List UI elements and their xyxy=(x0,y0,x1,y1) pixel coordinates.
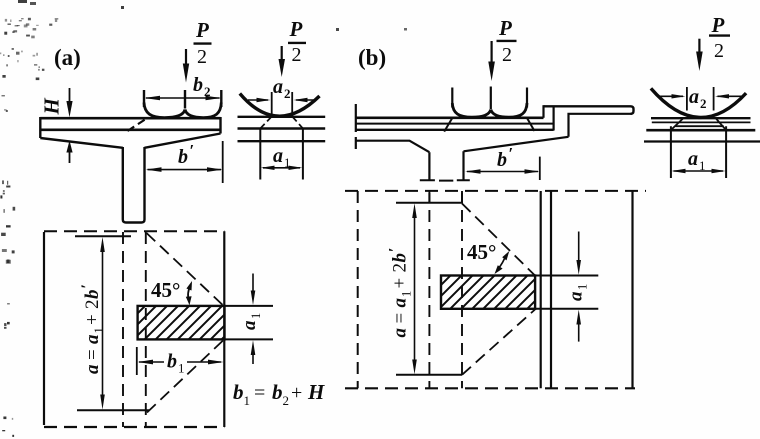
svg-text:1: 1 xyxy=(400,291,414,297)
svg-text:a: a xyxy=(688,148,698,170)
plan (a): top dashed edge xyxy=(44,230,224,232)
svg-text:a: a xyxy=(239,320,260,330)
svg-text:b: b xyxy=(272,380,283,404)
bearing (b): 45 spread diagonal left xyxy=(444,118,452,132)
45-degree spread dashed line in flange (a) xyxy=(128,119,147,132)
svg-text:b: b xyxy=(178,146,188,168)
beam (b): hook vertical xyxy=(552,106,554,130)
svg-text:2: 2 xyxy=(390,263,411,273)
svg-text:′: ′ xyxy=(79,284,96,289)
svg-text:b: b xyxy=(233,380,244,404)
detail (b): a2 ticks xyxy=(687,87,714,111)
svg-text:=: = xyxy=(82,349,103,360)
svg-text:b: b xyxy=(390,253,411,263)
svg-text:1: 1 xyxy=(178,361,185,376)
plan (a): lower 45 dashed diagonal xyxy=(147,340,224,413)
detail (a): a2 dimension arrows xyxy=(248,99,268,101)
plan (a): 45 leader curved arrow xyxy=(188,285,190,300)
detail (b): load arrow xyxy=(698,39,700,54)
detail (b): bearing width verticals xyxy=(671,126,726,178)
plan (b): web dashed line right xyxy=(461,191,463,388)
plan (b): left dashed edge xyxy=(357,191,359,388)
svg-text:2: 2 xyxy=(284,86,291,101)
equation b1 = b2 + H xyxy=(233,380,325,408)
dimension b' (b) label xyxy=(497,144,513,171)
plan (b): support double line right xyxy=(550,191,552,388)
bearing (b): 45 spread diagonal right xyxy=(527,118,535,131)
plan (b): a1 lower arrow xyxy=(578,322,580,342)
detail (a): flange top line xyxy=(238,116,326,118)
plan (a): b1 dimension right arrow xyxy=(187,361,221,363)
plan (b): dimension a arrow line xyxy=(414,210,416,368)
beam (b): bottom flange line xyxy=(356,141,430,153)
bearing rocker ticks (a) xyxy=(144,90,221,109)
detail (a): bearing width verticals xyxy=(260,129,303,180)
dimension H lower arrow xyxy=(69,150,71,163)
svg-text:2: 2 xyxy=(82,300,103,310)
bearing (b): arcs xyxy=(452,103,527,117)
plan (a): rotated label a = a1 + 2b' xyxy=(79,284,106,374)
plan (b): 45 leader curved arrow xyxy=(498,255,506,269)
svg-text:a: a xyxy=(82,364,103,374)
load P/2 label (a) xyxy=(195,18,209,68)
T-beam flange right underside slope (a) xyxy=(145,134,221,148)
svg-text:P: P xyxy=(711,13,725,37)
plan (b): a1 upper arrow xyxy=(578,232,580,263)
detail (b): a2 dimension arrows xyxy=(657,95,683,97)
svg-text:′: ′ xyxy=(190,141,195,160)
dimension line b2 (a) xyxy=(146,97,220,99)
svg-text:45°: 45° xyxy=(151,278,180,302)
plan (b): dimension a bottom tick xyxy=(396,374,462,376)
load arrow P/2 (a) xyxy=(185,49,187,66)
plan (b): upper 45 dashed diagonal xyxy=(462,204,535,276)
detail (a): load arrow xyxy=(281,46,283,61)
svg-text:+: + xyxy=(82,314,103,325)
svg-text:2: 2 xyxy=(283,393,290,408)
svg-text:a: a xyxy=(82,334,103,344)
plan (a): hatch top extension line xyxy=(225,305,274,307)
plan (b): top dashed edge xyxy=(345,190,646,192)
svg-text:b: b xyxy=(497,149,507,171)
plan (a): a1 upper arrow xyxy=(252,274,254,293)
svg-text:45°: 45° xyxy=(467,240,496,264)
svg-text:b: b xyxy=(193,74,203,96)
svg-text:(b): (b) xyxy=(358,45,386,70)
plan (a): dimension a bottom tick xyxy=(77,409,149,411)
T-beam flange right edge (a) xyxy=(219,117,221,134)
plan (a): b1 label xyxy=(167,351,185,376)
svg-text:H: H xyxy=(307,380,325,404)
detail (b): bearing saucer arc xyxy=(651,88,746,117)
svg-text:1: 1 xyxy=(576,284,590,290)
detail (a): dashed 45 spread left xyxy=(260,117,271,129)
svg-text:2: 2 xyxy=(197,46,207,68)
detail (b): 45 spread diagonal right xyxy=(716,119,726,131)
plan (a): right solid edge xyxy=(223,231,225,427)
svg-text:=: = xyxy=(390,313,411,324)
detail (b): load P/2 label xyxy=(711,13,725,62)
plan (a): left solid edge xyxy=(43,232,45,425)
svg-text:a: a xyxy=(689,86,699,108)
plan (b): hatch bottom extension line xyxy=(535,308,598,310)
dimension b' (a) label xyxy=(178,141,194,168)
beam (b): upper seat plate bottom line xyxy=(569,114,633,137)
plan (a): dimension a arrow line xyxy=(102,244,104,403)
plan (b): dimension a top tick xyxy=(396,202,462,204)
svg-text:2: 2 xyxy=(292,44,302,66)
svg-text:′: ′ xyxy=(387,248,404,253)
plan (a): web dashed line right xyxy=(145,232,147,427)
detail (a): fraction bar xyxy=(288,42,306,44)
detail (b): label a1 xyxy=(688,148,706,173)
plan (a): hatch bottom extension line xyxy=(225,338,274,340)
detail (b): fraction bar xyxy=(709,34,730,36)
dimension b' (b) right extension xyxy=(539,157,541,180)
plan (b): support double line left xyxy=(540,191,542,388)
svg-text:2: 2 xyxy=(714,40,724,62)
plan (b): rotated label a1 xyxy=(566,284,590,301)
load arrow P/2 (b) xyxy=(491,41,493,64)
beam (b): top plate line 2 xyxy=(356,123,554,125)
svg-text:a: a xyxy=(390,298,411,308)
detail (b): 45 spread diagonal left xyxy=(671,119,683,131)
svg-text:1: 1 xyxy=(92,327,106,333)
detail (a): dashed 45 spread right xyxy=(293,117,303,129)
dimension b' (a) right extension line xyxy=(222,141,224,183)
plan (a): bottom dashed edge xyxy=(44,426,224,428)
label b2 (a) xyxy=(193,74,211,99)
detail (a): a2 ticks xyxy=(272,92,293,117)
plan (a): a1 lower arrow xyxy=(252,353,254,364)
fraction bar P/2 (a) xyxy=(194,42,212,44)
plan (b): bottom dashed edge xyxy=(345,387,635,389)
svg-text:′: ′ xyxy=(509,144,514,163)
beam (b): web verticals xyxy=(429,151,463,180)
plan (b): web dashed line left xyxy=(428,191,430,388)
T-beam flange left edge (a) xyxy=(39,117,41,138)
beam (b): end block underside slope xyxy=(464,137,569,152)
svg-text:P: P xyxy=(498,16,512,40)
svg-text:P: P xyxy=(289,17,303,41)
dimension H upper arrow xyxy=(69,88,71,103)
svg-text:a: a xyxy=(566,291,587,301)
svg-text:(a): (a) xyxy=(54,45,81,70)
beam (b): upper seat plate top line xyxy=(544,106,634,114)
plan (a): dimension a top tick xyxy=(75,235,131,237)
plan (a): upper 45 dashed diagonal xyxy=(147,233,224,306)
bearing rocker arcs (a) xyxy=(144,103,221,118)
svg-text:+: + xyxy=(390,278,411,289)
detail (a): label a2 xyxy=(273,76,291,101)
svg-text:2: 2 xyxy=(502,44,512,66)
plan (a): b1 left tick xyxy=(136,347,138,375)
svg-text:H: H xyxy=(40,98,64,116)
T-beam flange left underside slope (a) xyxy=(40,138,123,148)
T-beam flange top line (a) xyxy=(40,117,220,120)
dimension b' (b) line xyxy=(467,171,538,173)
detail (b): label a2 xyxy=(689,86,707,111)
svg-text:1: 1 xyxy=(244,393,251,408)
detail (a): flange mid line xyxy=(238,127,326,129)
beam (b): left break tick upper xyxy=(355,104,357,132)
detail (b): plate line 2 xyxy=(652,121,751,123)
svg-text:P: P xyxy=(195,18,209,42)
detail (a): bearing saucer arc xyxy=(240,94,320,117)
plan (b): rotated label a = a1 + 2b' xyxy=(387,248,414,338)
beam (b): top plate line 1 xyxy=(356,117,544,120)
svg-text:a: a xyxy=(273,76,283,98)
svg-text:a: a xyxy=(390,328,411,338)
detail (b): a1 dimension arrows xyxy=(674,170,724,172)
beam (b): step vertical at plate end xyxy=(542,105,544,118)
fraction bar P/2 (b) xyxy=(497,40,517,42)
detail (a): load P/2 label xyxy=(289,17,303,66)
plan (b): web solid stubs below section xyxy=(429,193,462,204)
detail (b): plate line 3 short xyxy=(676,125,724,127)
T-beam flange inner line (a) xyxy=(40,129,220,132)
T-beam web (a) xyxy=(123,147,145,223)
detail (a): flange bottom line xyxy=(238,140,326,142)
plan (b): hatched bearing area xyxy=(441,276,535,309)
detail (b): plate line 4 xyxy=(646,129,755,132)
beam (b): top plate line 3 xyxy=(356,129,554,131)
svg-text:b: b xyxy=(167,351,177,373)
plan (a): web dashed line left xyxy=(122,232,124,427)
plan (a): b1 dimension left arrow xyxy=(139,361,164,363)
svg-text:2: 2 xyxy=(700,96,707,111)
beam (b): web break dashes xyxy=(420,179,470,181)
detail (b): flange line wide xyxy=(644,140,760,142)
scan noise specks left margin xyxy=(0,0,407,437)
svg-text:=: = xyxy=(254,382,265,404)
svg-text:1: 1 xyxy=(249,313,263,319)
plan (b): lower 45 dashed diagonal xyxy=(462,310,535,375)
plan (b): hatch top extension line xyxy=(535,275,598,277)
detail (a): a1 dimension arrows xyxy=(263,167,300,169)
detail (b): plate line 1 xyxy=(651,117,751,119)
plan (b): right solid edge xyxy=(631,191,633,388)
load P/2 label (b) xyxy=(498,16,512,66)
beam (b): left break tick lower xyxy=(355,137,357,149)
svg-text:a: a xyxy=(273,145,283,167)
svg-text:+: + xyxy=(291,382,302,404)
plan (a): rotated label a1 xyxy=(239,313,263,330)
dimension b' (a) line xyxy=(148,169,222,171)
svg-text:b: b xyxy=(82,290,103,300)
plan (a): hatched bearing area xyxy=(138,306,225,340)
detail (a): label a1 xyxy=(273,145,291,170)
bearing (b): verticals xyxy=(452,87,527,110)
